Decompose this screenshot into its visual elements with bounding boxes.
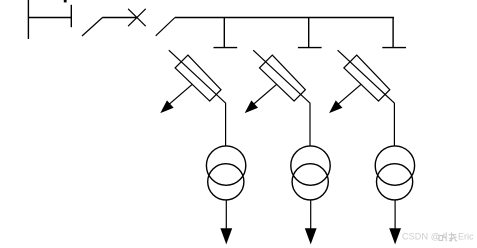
disconnector QS1 right contact bar [70, 5, 72, 27]
busbar W [175, 17, 394, 19]
drop-out fuse FU2 link line [253, 50, 310, 146]
load feeder line 3 [394, 200, 396, 229]
bus tap riser 3 [392, 18, 394, 48]
bus tap riser 1 [223, 18, 225, 48]
terminal stub dot (cut off at top edge) [64, 0, 67, 2]
fuse FU2 drop arrow shaft [254, 84, 277, 104]
svg-text:Eric: Eric [458, 232, 474, 242]
drop-out fuse FU1 body [175, 55, 221, 101]
drop-out fuse FU2 body [260, 55, 306, 101]
transformer T2 primary circle [291, 146, 330, 185]
drop-out fuse FU1 link line [169, 50, 226, 146]
transformer T1 primary circle [206, 146, 245, 185]
transformer T2 secondary circle [292, 164, 328, 200]
fuse FU2 drop arrow head [245, 100, 258, 113]
fuse FU3 drop arrow shaft [338, 84, 361, 104]
circuit breaker QF blade (open) [82, 18, 103, 37]
load feeder line 2 [310, 200, 312, 229]
fuse FU3 drop arrow head [329, 100, 342, 113]
fuse FU1 drop arrow head [160, 100, 173, 113]
wire QF blade to contact [103, 17, 137, 19]
bus tap riser 2 [308, 18, 310, 48]
watermark CSDN @叫我Eric [402, 232, 474, 242]
transformer T3 secondary circle [377, 164, 413, 200]
drop-out fuse FU3 body [344, 55, 390, 101]
load arrow head 3 [389, 228, 401, 244]
bus tap bar 3 [382, 47, 406, 49]
load arrow head 2 [305, 228, 317, 244]
circuit breaker QF contact cross X [128, 9, 146, 26]
bus tap bar 2 [298, 47, 322, 49]
wire QS1 crossbar [28, 17, 71, 19]
bus tap bar 1 [214, 47, 238, 49]
disconnector QS1 left pole (vertical, cut off at top) [27, 0, 29, 39]
drop-out fuse FU3 link line [338, 50, 395, 146]
transformer T3 primary circle [375, 146, 414, 185]
transformer T1 secondary circle [208, 164, 244, 200]
fuse FU1 drop arrow shaft [170, 84, 193, 104]
svg-text:CSDN @: CSDN @ [402, 232, 440, 242]
load feeder line 1 [225, 200, 227, 229]
disconnector QS2 blade (open) [156, 18, 175, 36]
load arrow head 1 [220, 228, 232, 244]
